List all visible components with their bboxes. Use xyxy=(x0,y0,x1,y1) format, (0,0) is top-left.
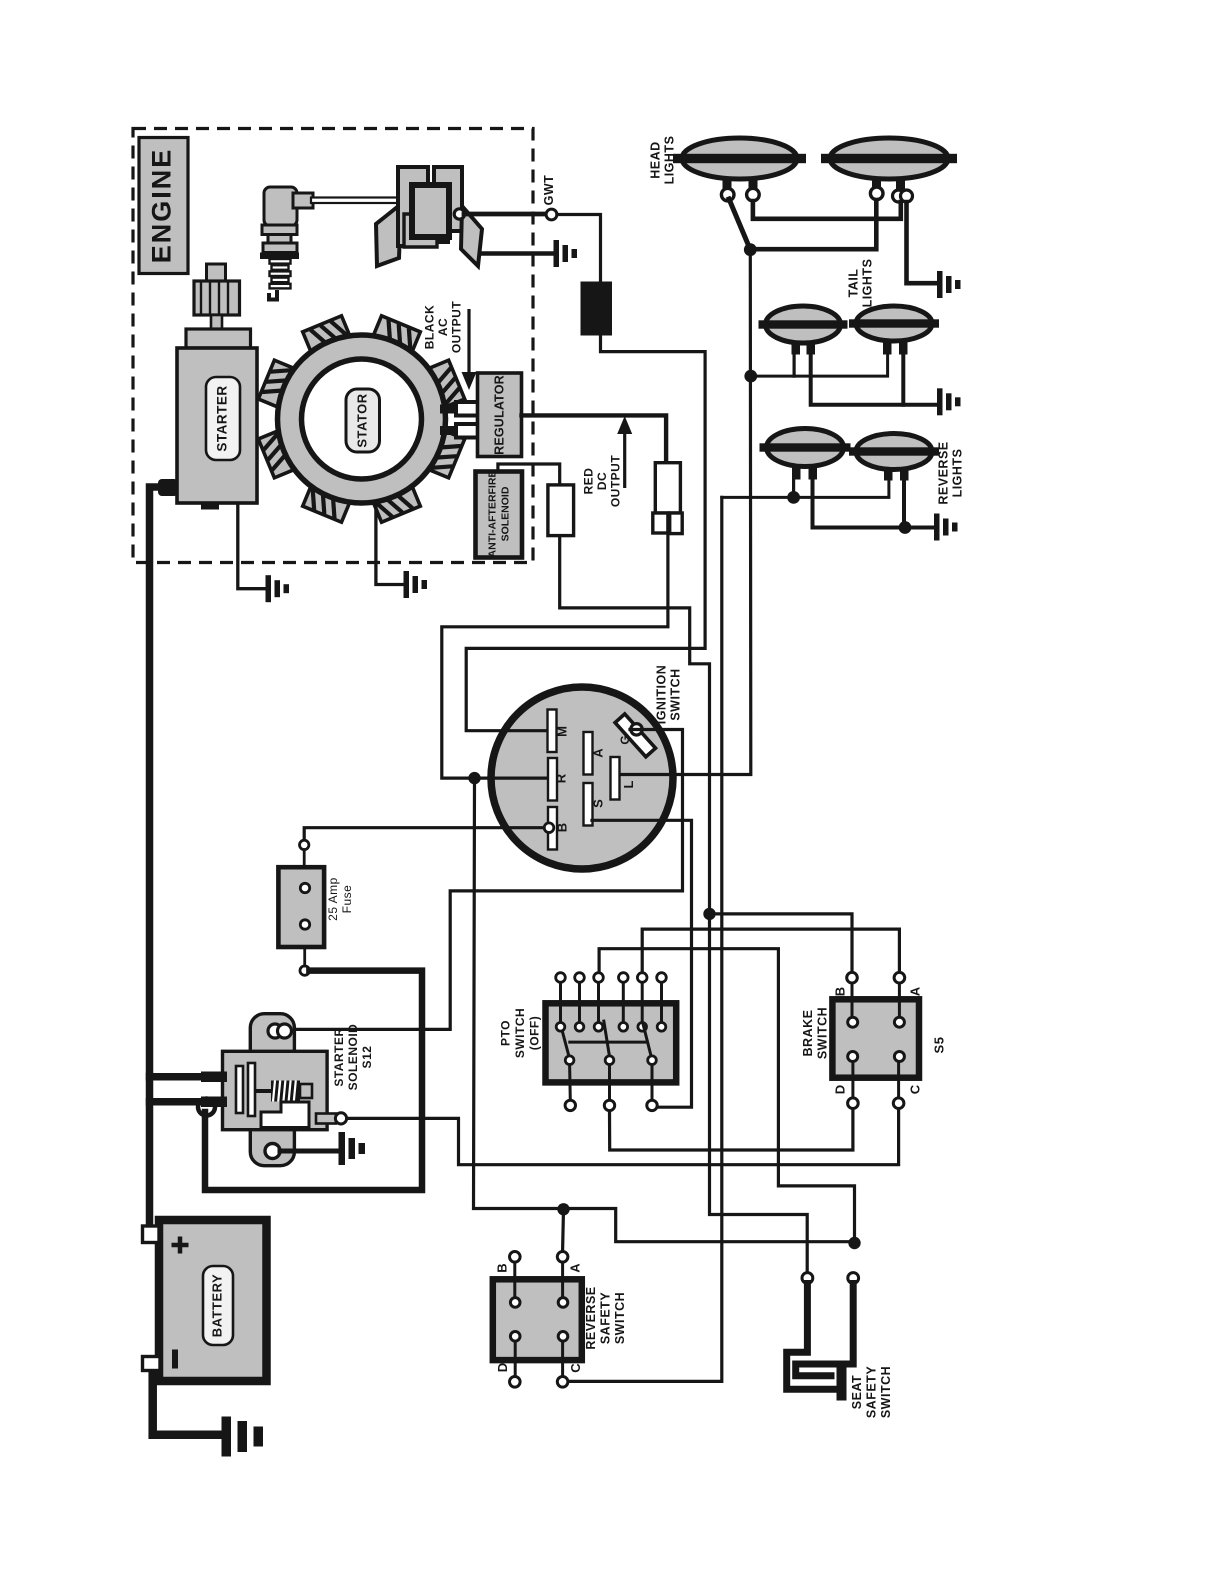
label BRAKE SWITCH xyxy=(801,1007,829,1059)
svg-text:GWT: GWT xyxy=(542,175,556,206)
svg-text:STARTER: STARTER xyxy=(332,1027,346,1086)
wire head lights crossover xyxy=(756,200,876,249)
wire PTO to brake A xyxy=(642,929,899,971)
ground (head lights) xyxy=(937,271,961,298)
svg-text:SOLENOID: SOLENOID xyxy=(346,1024,360,1091)
stator output terminals xyxy=(440,402,480,438)
wire head light 1 feed (diagonal) xyxy=(729,199,750,250)
svg-text:G: G xyxy=(618,735,632,744)
svg-text:SEAT: SEAT xyxy=(850,1375,864,1409)
head light 1 terminals xyxy=(721,188,759,201)
ground (battery) xyxy=(222,1417,264,1457)
wire tail lights feed xyxy=(751,355,888,376)
svg-text:SWITCH: SWITCH xyxy=(513,1008,527,1058)
battery negative cable xyxy=(153,1372,219,1435)
junction seat safety xyxy=(848,1237,860,1249)
ignition switch xyxy=(491,687,673,869)
wire stator to ground xyxy=(376,505,402,585)
svg-text:C: C xyxy=(907,1084,922,1094)
anti-afterfire solenoid xyxy=(476,471,523,558)
reverse safety switch xyxy=(493,1252,583,1388)
svg-text:IGNITION: IGNITION xyxy=(654,665,668,725)
label 25 Amp Fuse xyxy=(326,877,354,921)
junction head lights xyxy=(744,243,757,256)
svg-text:SAFETY: SAFETY xyxy=(598,1292,612,1344)
starter solenoid contact terminal xyxy=(316,1113,347,1124)
svg-text:SWITCH: SWITCH xyxy=(668,668,682,720)
svg-text:PTO: PTO xyxy=(499,1020,513,1046)
reverse light 1 xyxy=(760,429,851,480)
wire module to GWT xyxy=(464,212,546,217)
wire PTO to seat safety right xyxy=(599,949,854,1237)
ignition module terminal xyxy=(454,209,464,219)
starter solenoid S12 body xyxy=(223,1014,328,1166)
wire head light grounds link xyxy=(753,201,901,219)
wire reverse lights to reverse safety C xyxy=(569,497,722,1381)
fuse terminals xyxy=(300,840,310,975)
junction terminal R xyxy=(468,772,480,784)
svg-text:A: A xyxy=(590,748,605,758)
wire anti-afterfire to diode xyxy=(498,464,560,484)
label REVERSE SAFETY SWITCH xyxy=(584,1286,627,1349)
wire junction to brake B xyxy=(710,914,853,971)
ignition terminal B ring xyxy=(544,823,554,833)
svg-text:LIGHTS: LIGHTS xyxy=(860,259,874,308)
svg-text:25 Amp: 25 Amp xyxy=(326,877,340,921)
wire regulator DC output xyxy=(522,415,667,461)
svg-text:SAFETY: SAFETY xyxy=(864,1366,878,1418)
regulator xyxy=(478,373,522,457)
ground (stator) xyxy=(404,571,428,598)
label TAIL LIGHTS xyxy=(846,259,874,308)
tail light 1 xyxy=(759,306,848,355)
spark plug lead wire xyxy=(311,198,411,204)
wire lights bus to terminal L xyxy=(621,254,751,775)
svg-text:BLACK: BLACK xyxy=(423,305,437,350)
svg-text:B: B xyxy=(554,823,569,832)
svg-text:SWITCH: SWITCH xyxy=(879,1366,893,1418)
junction reverse lights xyxy=(787,491,800,504)
svg-text:(OFF): (OFF) xyxy=(528,1016,542,1051)
battery terminal positive xyxy=(143,1226,160,1243)
svg-text:REVERSE: REVERSE xyxy=(936,441,950,504)
diode/fuse element xyxy=(548,485,574,536)
svg-text:S5: S5 xyxy=(931,1037,946,1054)
svg-text:B: B xyxy=(832,987,847,996)
head light 2 xyxy=(821,138,957,190)
battery terminal negative xyxy=(143,1357,161,1371)
connector plug xyxy=(653,463,682,534)
wire terminal B to fuse xyxy=(304,828,544,839)
svg-text:RED: RED xyxy=(582,468,596,495)
svg-text:LIGHTS: LIGHTS xyxy=(662,136,676,185)
starter solenoid coil terminal xyxy=(268,1024,292,1038)
wire connector to terminal R xyxy=(442,534,668,778)
wire tail lights to ground xyxy=(811,355,936,405)
ignition unit (black box) xyxy=(581,282,613,336)
head light 1 xyxy=(673,138,806,190)
svg-text:S12: S12 xyxy=(360,1046,374,1069)
svg-text:A: A xyxy=(567,1263,582,1273)
svg-text:STARTER: STARTER xyxy=(215,385,230,451)
svg-text:D: D xyxy=(495,1363,510,1372)
label S5 xyxy=(931,1037,946,1054)
svg-text:LIGHTS: LIGHTS xyxy=(950,449,964,498)
ignition switch key G terminal xyxy=(615,714,655,757)
label STARTER SOLENOID S12 xyxy=(332,1024,374,1091)
label HEAD LIGHTS xyxy=(648,136,676,185)
label RED DC OUTPUT xyxy=(582,416,633,507)
svg-text:D: D xyxy=(832,1085,847,1094)
junction reverse lights ground xyxy=(899,521,912,534)
battery positive cable xyxy=(150,487,204,1224)
svg-text:C: C xyxy=(568,1363,583,1373)
PTO switch xyxy=(546,973,677,1111)
head light 2 terminals xyxy=(870,187,912,202)
wire starter to ground xyxy=(238,505,264,589)
GWT terminal xyxy=(542,175,557,220)
starter motor xyxy=(177,264,257,510)
stator xyxy=(258,316,464,522)
starter solenoid battery studs xyxy=(198,1072,227,1116)
svg-text:REGULATOR: REGULATOR xyxy=(492,375,506,455)
label PTO SWITCH (OFF) xyxy=(499,1008,542,1058)
wire R net to safety switches xyxy=(474,778,849,1242)
label IGNITION SWITCH xyxy=(654,665,682,725)
svg-text:SWITCH: SWITCH xyxy=(613,1292,627,1344)
svg-text:OUTPUT: OUTPUT xyxy=(450,301,464,354)
wire GWT to ignition unit xyxy=(557,215,601,281)
junction tail lights xyxy=(744,370,757,383)
wire fuse to solenoid stud xyxy=(205,971,422,1190)
svg-text:Fuse: Fuse xyxy=(340,885,354,914)
25 Amp fuse xyxy=(278,850,324,966)
ground (starter) xyxy=(266,575,290,602)
svg-text:ANTI-AFTERFIRE: ANTI-AFTERFIRE xyxy=(486,471,498,558)
wire PTO to brake D xyxy=(610,1109,853,1150)
reverse light 2 xyxy=(849,434,939,481)
battery xyxy=(159,1220,267,1381)
svg-text:AC: AC xyxy=(436,318,450,336)
wire reverse lights to ground xyxy=(813,479,934,528)
wire solenoid to brake C xyxy=(348,1109,899,1165)
label REVERSE LIGHTS xyxy=(936,441,964,504)
ground (engine module) xyxy=(554,240,578,267)
svg-text:TAIL: TAIL xyxy=(846,269,860,298)
starter terminal stud xyxy=(158,479,178,496)
svg-text:SOLENOID: SOLENOID xyxy=(499,486,511,541)
ground (tail lights) xyxy=(937,388,961,415)
junction reverse safety A xyxy=(557,1203,569,1215)
wire module to ground xyxy=(482,251,552,256)
brake switch S5 xyxy=(832,972,922,1108)
wire diode to seat safety xyxy=(560,536,808,1271)
wire solenoid to ground xyxy=(280,1149,337,1154)
tail light 2 xyxy=(849,306,939,355)
ground (reverse lights) xyxy=(934,514,958,541)
svg-text:STATOR: STATOR xyxy=(354,393,369,447)
wire head light 2 to ground xyxy=(907,202,937,283)
ground (solenoid) xyxy=(339,1132,366,1165)
wire junction to reverse safety A xyxy=(561,1209,565,1250)
ENGINE label box xyxy=(139,138,188,274)
svg-text:REVERSE: REVERSE xyxy=(584,1286,598,1349)
svg-text:HEAD: HEAD xyxy=(648,141,662,178)
junction brake feed xyxy=(703,908,715,920)
ignition module M1 xyxy=(376,167,482,266)
starter solenoid mounting hole xyxy=(265,1144,280,1159)
svg-text:BRAKE: BRAKE xyxy=(801,1010,815,1057)
wire key G terminal to solenoid xyxy=(290,730,683,1030)
svg-text:B: B xyxy=(494,1263,509,1272)
svg-text:L: L xyxy=(621,780,636,788)
wire ignition unit to terminal M xyxy=(466,335,705,730)
svg-text:S: S xyxy=(590,799,605,808)
svg-text:R: R xyxy=(553,773,568,783)
wire terminal S to PTO xyxy=(592,820,692,1107)
label BLACK AC OUTPUT xyxy=(423,301,477,390)
wire reverse lights feed xyxy=(722,479,889,497)
svg-text:ENGINE: ENGINE xyxy=(147,148,177,264)
svg-text:SWITCH: SWITCH xyxy=(815,1007,829,1059)
svg-text:DC: DC xyxy=(595,472,609,490)
svg-text:OUTPUT: OUTPUT xyxy=(609,455,623,508)
seat safety switch xyxy=(787,1273,859,1401)
svg-text:BATTERY: BATTERY xyxy=(209,1274,224,1337)
label SEAT SAFETY SWITCH xyxy=(850,1366,893,1418)
svg-text:A: A xyxy=(907,986,922,996)
engine compartment dashed boundary xyxy=(133,129,533,563)
svg-text:M: M xyxy=(554,726,569,737)
spark plug xyxy=(260,187,313,300)
